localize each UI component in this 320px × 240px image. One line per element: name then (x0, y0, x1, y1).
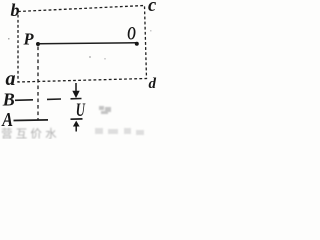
dot at O (135, 42, 139, 46)
svg-text:B: B (2, 90, 15, 110)
down arrow toward plate B (75, 83, 77, 92)
stray speckles (8, 30, 152, 60)
dot at P (36, 42, 40, 46)
field region boundary rectangle b-c-d-a (dashed) (18, 6, 147, 83)
scan bleed-through noise, bottom right faint marks (95, 128, 144, 135)
up arrow toward plate A (73, 121, 80, 127)
plate A line (14, 119, 83, 121)
wire line P to O (38, 43, 137, 44)
svg-text:P: P (23, 30, 35, 49)
svg-text:a: a (6, 68, 16, 90)
svg-text:营互价水: 营互价水 (1, 127, 60, 140)
svg-text:c: c (148, 0, 156, 16)
svg-text:O: O (127, 25, 136, 45)
svg-text:d: d (149, 76, 157, 92)
scan bleed-through noise, bottom row (1, 127, 60, 141)
dashed vertical trajectory from P down to plate A (37, 47, 39, 121)
plate B dashed line (15, 99, 82, 101)
svg-text:b: b (11, 0, 20, 20)
svg-text:U: U (76, 101, 86, 121)
scan bleed-through noise, right mid blob (99, 106, 111, 114)
